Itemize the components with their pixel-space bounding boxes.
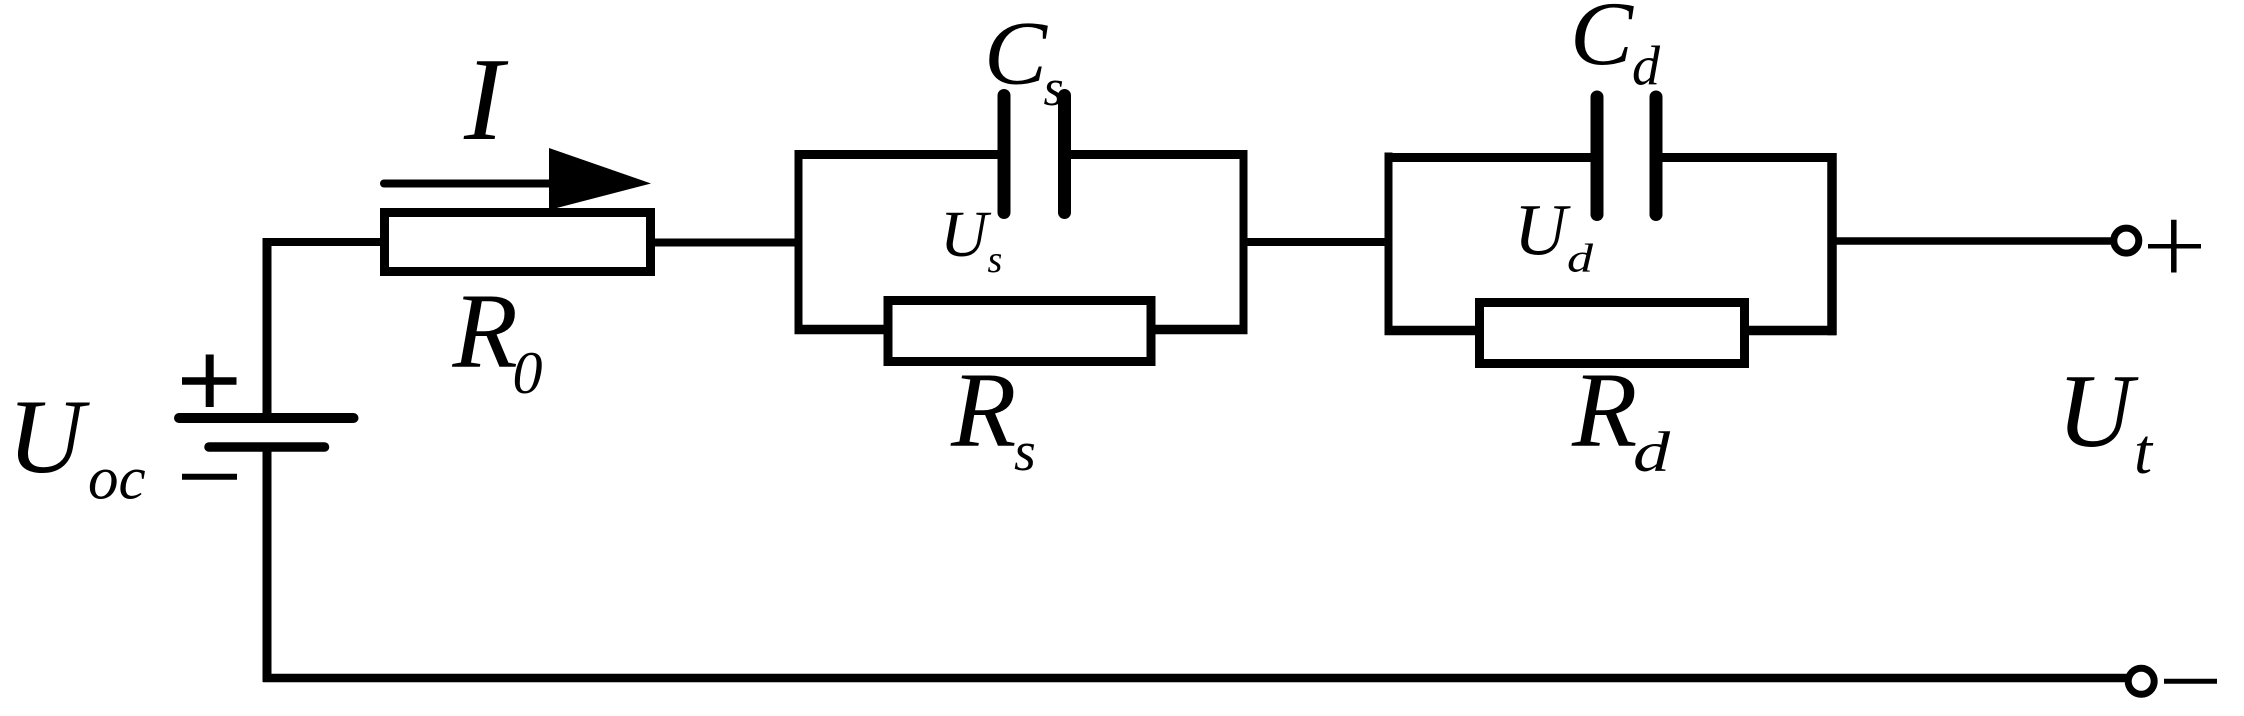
svg-text:R: R: [950, 352, 1016, 470]
node: RC block 2 frame left edge: [1385, 153, 1393, 335]
label Ud: [1514, 190, 1594, 281]
svg-text:U: U: [8, 378, 91, 495]
capacitor Cd left plate: [1591, 97, 1604, 215]
wire block1 top edge right segment: [1064, 150, 1248, 159]
capacitor Cs right plate: [1058, 96, 1071, 213]
label Cs: [984, 3, 1064, 118]
wire R0 to RC block 1: [655, 239, 798, 247]
minus sign at negative terminal: [2164, 679, 2217, 684]
resistor Rd: [1480, 303, 1745, 364]
wire block1 to block2: [1244, 238, 1391, 246]
node: RC block 1 frame left edge: [795, 151, 803, 335]
wire block2 to positive terminal: [1832, 237, 2113, 245]
wire bottom return rail: [263, 674, 2128, 683]
svg-text:R: R: [1571, 352, 1637, 470]
label I: [463, 33, 509, 165]
wire battery bottom lead: [263, 447, 272, 682]
positive terminal circle: [2114, 228, 2139, 253]
label Us: [940, 198, 1002, 281]
wire block2 top edge left segment: [1385, 153, 1599, 162]
svg-text:U: U: [1514, 190, 1571, 271]
battery plus polarity mark: [182, 355, 237, 408]
resistor Rs: [888, 301, 1151, 362]
svg-text:U: U: [940, 198, 992, 271]
negative terminal circle: [2128, 668, 2154, 694]
svg-text:t: t: [2134, 416, 2154, 488]
node: RC block 2 frame right edge: [1827, 153, 1837, 335]
plus sign at positive terminal: [2148, 220, 2201, 273]
wire block1 top edge left segment: [795, 150, 1006, 159]
current arrow I: [384, 148, 651, 210]
capacitor Cs left plate: [998, 96, 1011, 213]
label U_oc: [8, 378, 146, 513]
svg-text:d: d: [1567, 236, 1594, 281]
svg-text:s: s: [988, 239, 1003, 281]
node: RC block 1 frame right edge: [1240, 151, 1248, 335]
svg-text:I: I: [463, 33, 509, 165]
svg-text:s: s: [1044, 60, 1064, 117]
wire block2 top edge right segment: [1656, 153, 1836, 162]
label Ut: [2057, 352, 2154, 488]
resistor R0: [385, 213, 651, 272]
wire block1 bottom edge left segment: [795, 325, 891, 335]
svg-text:C: C: [984, 3, 1048, 104]
svg-text:oc: oc: [88, 446, 146, 513]
svg-text:d: d: [1632, 36, 1661, 98]
svg-text:s: s: [1014, 421, 1036, 483]
label Cd: [1570, 0, 1661, 98]
wire block2 bottom edge right segment: [1744, 326, 1836, 336]
label Rs: [950, 352, 1036, 483]
battery U_oc negative plate (short): [209, 442, 325, 452]
wire block2 bottom edge left segment: [1385, 326, 1482, 336]
svg-text:U: U: [2057, 352, 2139, 469]
battery U_oc positive plate (long): [179, 413, 354, 423]
label R0: [452, 273, 543, 406]
svg-text:R: R: [452, 273, 518, 391]
svg-text:d: d: [1633, 421, 1671, 484]
svg-text:C: C: [1570, 0, 1634, 84]
battery minus polarity mark: [182, 474, 237, 480]
wire block1 bottom edge right segment: [1150, 325, 1248, 335]
svg-text:0: 0: [513, 340, 543, 406]
wire battery to R0: [263, 238, 384, 246]
capacitor Cd right plate: [1650, 97, 1663, 215]
label Rd: [1571, 352, 1671, 484]
wire battery top lead: [263, 238, 272, 418]
